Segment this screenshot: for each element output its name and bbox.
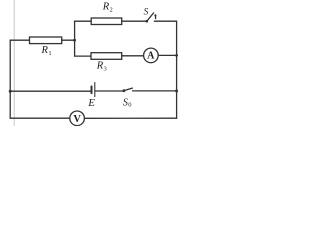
wire xyxy=(154,20,176,22)
svg-text:A: A xyxy=(147,50,155,61)
wire xyxy=(10,90,90,92)
switch S0 xyxy=(123,88,133,92)
svg-text:V: V xyxy=(73,114,81,125)
svg-text:S: S xyxy=(144,7,149,17)
voltmeter V xyxy=(70,111,85,126)
ammeter A xyxy=(144,48,159,63)
wire xyxy=(10,117,70,119)
wire xyxy=(84,117,176,119)
resistor R2 xyxy=(91,18,122,25)
wire xyxy=(122,55,144,57)
svg-text:E: E xyxy=(87,97,95,109)
wire xyxy=(176,21,178,118)
wire xyxy=(133,90,177,92)
node junction right-ammeter xyxy=(175,54,178,57)
wire xyxy=(62,39,75,41)
wire xyxy=(9,40,11,118)
switch S xyxy=(146,13,157,23)
wire xyxy=(158,54,176,56)
wire xyxy=(74,21,76,56)
battery E xyxy=(87,83,95,110)
node junction right-battery xyxy=(175,90,178,93)
wire xyxy=(95,90,123,92)
node junction left-battery xyxy=(9,90,12,93)
wire xyxy=(122,20,147,22)
resistor R1 xyxy=(30,37,62,44)
node junction R1-branches xyxy=(73,39,76,42)
wire xyxy=(75,55,91,57)
resistor R3 xyxy=(91,53,122,60)
wire xyxy=(10,39,29,41)
wire xyxy=(75,20,92,22)
